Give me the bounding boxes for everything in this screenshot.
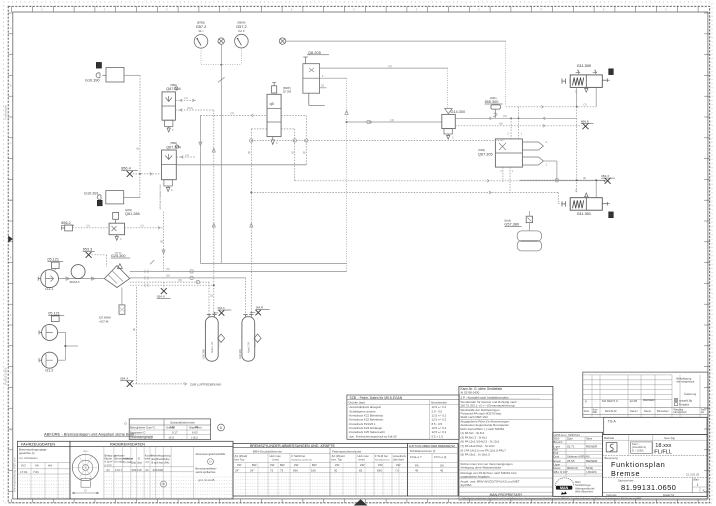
G11.300 bottom ports (576, 87, 578, 106)
svg-text:G1.1: G1.1 (45, 287, 53, 291)
grey line x200.4 (199, 115, 201, 263)
svg-text:(ba): (ba) (132, 461, 137, 465)
svg-text:(4): (4) (390, 118, 393, 122)
svg-text:Lager: Lager (554, 462, 561, 466)
G67.305 top stubs (510, 118, 512, 139)
svg-text:(1): (1) (230, 111, 233, 115)
svg-text:REINER: REINER (586, 445, 598, 449)
pressure gauge G57.2 KL I (194, 35, 208, 49)
svg-text:Funktionsplan: Funktionsplan (5, 104, 8, 120)
valve G11.301 body (570, 198, 602, 211)
valve Q8.205 port 21 wire (320, 67, 448, 69)
wire junction down to G10.391 (139, 174, 141, 198)
svg-text:856.8: 856.8 (581, 120, 589, 124)
test point 054.X dryer (163, 282, 165, 288)
svg-text:Blatt: Blatt (694, 477, 699, 481)
svg-text:F Stößl bei: F Stößl bei (292, 454, 306, 458)
wire 800P right port 115 to riser x306 (281, 114, 306, 116)
wire Q8.205 to G14.300 corner (447, 68, 449, 108)
G10.390 left coupling (96, 73, 100, 78)
G11.301 top ports (595, 181, 597, 198)
pilot circle 79B1 (175, 87, 178, 90)
svg-text:GG: GG (21, 464, 26, 468)
svg-text:ein-ausgebaut: ein-ausgebaut (677, 380, 695, 384)
wire 856.2 to Q61.288 (72, 227, 109, 229)
svg-text:PA: PA (415, 463, 419, 467)
bottom centering triangle (354, 499, 368, 505)
svg-text:45: 45 (440, 469, 444, 473)
svg-text:90102.0(: 90102.0( (567, 466, 578, 470)
tank1 feed corner (208, 282, 210, 317)
svg-text:(A20H): (A20H) (115, 251, 122, 254)
bus 7 wire (506, 106, 597, 108)
svg-text:(8.3): (8.3) (187, 106, 193, 110)
svg-text:24": 24" (250, 469, 254, 473)
svg-text:Freigabe: Freigabe (679, 402, 690, 406)
table BREMSZYLINDER (233, 444, 407, 497)
svg-text:Nennwert C-: Nennwert C- (130, 431, 146, 435)
svg-text:0.17: 0.17 (172, 431, 178, 435)
svg-text:ZW: ZW (270, 463, 275, 467)
svg-text:2(8.75.253.1- (C+---(Gesamtaus: 2(8.75.253.1- (C+---(Gesamtausführung) (461, 404, 515, 408)
svg-text:(8): (8) (166, 274, 169, 278)
svg-text:24": 24" (235, 469, 239, 473)
regeneration slash (150, 260, 154, 264)
tank1 test point 054.X (214, 312, 216, 314)
svg-text:des Rad-Reibe: des Rad-Reibe (151, 457, 170, 461)
svg-text:G14.300: G14.300 (451, 110, 466, 114)
svg-text:dyn: dyn (83, 449, 88, 453)
tank2 test point 054.R (250, 312, 252, 314)
svg-text:KA II: KA II (238, 29, 244, 33)
bus y164.8 solid (176, 164, 306, 166)
svg-text:ZW: ZW (294, 463, 299, 467)
tank2 feed corner (245, 278, 247, 317)
dryer filter triangle (118, 264, 123, 269)
svg-text:BW: BW (252, 463, 257, 467)
svg-text:zul. Achslasten: zul. Achslasten (19, 456, 38, 460)
svg-text:Funktionsplan: Funktionsplan (611, 460, 666, 469)
svg-text:22: 22 (321, 84, 325, 88)
svg-text:q5: q5 (270, 101, 274, 106)
svg-text:Q61.288: Q61.288 (125, 212, 140, 216)
svg-text:410-500: 410-500 (153, 468, 164, 472)
svg-text:D: D (138, 457, 140, 461)
svg-text:(1): (1) (86, 224, 89, 228)
svg-text:Hub(5(mm), a=0.5bar bze: Hub(5(mm), a=0.5bar bze (292, 460, 313, 462)
svg-text:(m (ad): (m (ad) (115, 460, 124, 464)
svg-text:Nennbetrieb: Nennbetrieb (431, 401, 447, 405)
svg-text:kartenzeich: kartenzeich (674, 410, 688, 414)
G14.300 port wire y125.8 dashed (455, 125, 582, 127)
junction x139.9 y173.9 (139, 173, 141, 175)
svg-text:75: 75 (280, 469, 284, 473)
svg-text:Q8.205: Q8.205 (308, 50, 321, 55)
svg-text:Name: Name (554, 466, 561, 470)
svg-text:(1): (1) (185, 153, 188, 157)
svg-text:G1.2: G1.2 (45, 369, 53, 373)
svg-text:(bar (bar): (bar (bar) (393, 458, 404, 462)
svg-text:g=(- Cr cm B: g=(- Cr cm B (199, 478, 215, 482)
svg-text:Lösedruck: Lösedruck (393, 454, 407, 458)
svg-text:Qual: Qual (554, 455, 560, 459)
svg-text:160: 160 (170, 425, 175, 429)
svg-text:KV(a+c ?: KV(a+c ? (410, 455, 422, 459)
svg-text:ZW: ZW (360, 463, 365, 467)
svg-text:Überseilungsnach: Überseilungsnach (130, 435, 154, 439)
svg-text:17.01: 17.01 (20, 470, 28, 474)
svg-text:856.2: 856.2 (61, 221, 71, 225)
svg-text:-95: -95 (194, 425, 199, 429)
wire 800P right port 129 to riser x294 (281, 128, 295, 130)
table FAHRZEUGDATEN (17, 441, 70, 499)
svg-text:Bremse: Bremse (611, 469, 640, 478)
junction gauges (220, 64, 222, 66)
svg-text:bze Typ: bze Typ (235, 458, 245, 462)
G11.300 top arrows (576, 70, 580, 74)
black connector G10.390 (96, 62, 101, 68)
component G10.390 (106, 68, 124, 83)
G10.391 left coupling (97, 195, 101, 200)
MAN logo (555, 478, 574, 486)
compressor G1.1 (41, 270, 59, 288)
svg-text:BREMSZYLINDER-ABMESSUNGEN UND: BREMSZYLINDER-ABMESSUNGEN UND -KRÄFTE (250, 444, 335, 448)
svg-text:© Alle Rechte vorbehalten. Wei: © Alle Rechte vorbehalten. Weitergabe un… (461, 497, 642, 500)
svg-text:172.7: 172.7 (115, 468, 123, 472)
svg-text:Al 52*68 0430: Al 52*68 0430 (461, 391, 480, 395)
svg-text:-dyn. Kreissicherungsdruck ac: -dyn. Kreissicherungsdruck ac Kdt-25 (349, 434, 397, 438)
svg-text:G11.300: G11.300 (577, 64, 591, 68)
wire gauge KL I drop (200, 48, 202, 65)
svg-text:Gefahren MSPL/W(: Gefahren MSPL/W( (567, 455, 590, 459)
riser x251.3 to tank2 (250, 129, 252, 317)
svg-text:054.X: 054.X (601, 174, 609, 178)
air tank G30.390 Kreis 2 (242, 317, 255, 362)
svg-text:O: O (575, 190, 577, 193)
junction x346 y122 (346, 121, 348, 123)
valve Q8.205 port 1 wire (320, 77, 347, 79)
svg-text:+627.46: +627.46 (99, 320, 109, 324)
svg-text:Bemerken: Bemerken (657, 409, 669, 413)
svg-text:B: B (162, 482, 164, 486)
svg-text:856.4: 856.4 (121, 167, 131, 171)
governor circle S1M (71, 265, 85, 279)
svg-text:SA: SA (440, 463, 444, 467)
svg-text:Bereich: Bereich (554, 440, 563, 444)
svg-text:G25.300: G25.300 (111, 254, 126, 258)
svg-text:5.5 + 1.5: 5.5 + 1.5 (432, 434, 444, 438)
bus y180.3 (520, 179, 605, 181)
valve 79B1 port2 wire (175, 109, 213, 111)
wire 854.X to valve 79B2 (133, 173, 162, 175)
compressor G1.2 b (42, 352, 58, 368)
855.300 check valve (493, 109, 498, 118)
svg-text:(1): (1) (303, 151, 306, 154)
svg-text:(6): (6) (166, 267, 169, 271)
frame ruler ticks bottom (11, 499, 13, 503)
svg-text:690: 690 (293, 469, 298, 473)
valve Q67.304 79B1 (162, 92, 175, 120)
circled B mark (161, 481, 167, 487)
svg-text:O: O (575, 91, 577, 94)
svg-text:BW: BW (312, 463, 317, 467)
svg-text:(D: (D (146, 468, 149, 472)
svg-text:Näne: Näne (586, 437, 593, 441)
svg-text:Q7.305: Q7.305 (283, 91, 292, 94)
G1.2b left stub (39, 358, 42, 362)
svg-text:KL I: KL I (199, 29, 204, 33)
valve Q67.305 800P body (267, 94, 281, 136)
svg-text:(6): (6) (499, 122, 502, 126)
wire 800P left port 129 to tank2 riser (251, 128, 267, 130)
svg-text:18.xxx: 18.xxx (655, 443, 671, 449)
svg-text:160: 160 (311, 469, 316, 473)
svg-text:Zglut: Zglut (567, 437, 573, 441)
svg-text:G10.391: G10.391 (84, 192, 99, 196)
check valve atop G14.300 (445, 108, 453, 113)
svg-text:Gew. (kg): Gew. (kg) (664, 436, 675, 440)
svg-text:(800P): (800P) (283, 87, 291, 90)
copyright strip (459, 496, 707, 500)
svg-text:(m (ad): (m (ad) (124, 460, 132, 464)
svg-text:Schaltanvolumen (l): Schaltanvolumen (l) (410, 449, 436, 453)
left centering triangle (8, 236, 13, 243)
circled D mark (218, 424, 225, 431)
wire G10.390 to x140 (124, 74, 140, 76)
svg-text:(1): (1) (291, 151, 294, 154)
slash mark on line x221 (218, 77, 225, 82)
dryer outlet line 24 short (130, 284, 214, 286)
svg-text:Bremsausrüstung 1685 mm: Bremsausrüstung 1685 mm (13, 457, 17, 492)
svg-text:Q67.305: Q67.305 (478, 152, 493, 156)
svg-text:3(B-( 0( 1K?: 3(B-( 0( 1K? (554, 470, 569, 474)
svg-text:Datum: Datum (630, 409, 638, 413)
svg-text:G31.31: G31.31 (219, 340, 221, 347)
component G10.391 (106, 191, 124, 204)
wire y140.4 to G67.305 (251, 139, 503, 141)
svg-text:TG-A: TG-A (608, 420, 617, 424)
svg-text:627.66NH: 627.66NH (99, 316, 111, 320)
svg-text:Kreis 2 FA: Kreis 2 FA (248, 342, 251, 353)
svg-text:REINER: REINER (586, 459, 598, 463)
svg-text:organisieren Angaben: organisieren Angaben (461, 475, 491, 479)
svg-text:1: 1 (697, 483, 699, 487)
svg-text:7.0: 7.0 (395, 469, 399, 473)
svg-text:G: G (10, 372, 12, 374)
valve Q61.288 exhaust (116, 235, 118, 237)
wire vertical x346.6 supply (346, 78, 348, 271)
svg-text:BW: BW (280, 463, 285, 467)
G11.301 right stub (602, 203, 607, 205)
svg-text:(3): (3) (583, 176, 586, 180)
svg-text:RADBREMSDATEN: RADBREMSDATEN (110, 442, 145, 447)
air tank G30.380 Kreis 1 (205, 317, 218, 362)
dryer inlet line from compressor (59, 278, 105, 280)
table LUFTVOLUMEN (407, 444, 458, 497)
table small Schaublosbremse (129, 419, 210, 440)
wire purge to air suspension (133, 383, 187, 385)
svg-text:G10.390: G10.390 (85, 79, 100, 83)
frame ruler ticks top (11, 6, 13, 12)
svg-text:Zäh: Zäh (593, 410, 598, 414)
svg-text:(1): (1) (184, 96, 187, 100)
tank1 nipples (208, 315, 210, 317)
svg-text:(ba): (ba) (137, 461, 142, 465)
bus y192.5 dashed to right (251, 192, 558, 194)
svg-text:ZW: ZW (378, 463, 383, 467)
G11.301 black connector (609, 212, 614, 218)
wire 653.3 to dryer (92, 254, 107, 256)
valve 79B2 port1 stub (176, 156, 196, 158)
svg-text:05.121: 05.121 (48, 311, 60, 315)
G14.300 port wire y118.3 (455, 117, 576, 119)
svg-text:Q67.304: Q67.304 (166, 87, 181, 91)
wire drop x505.7 (505, 41, 507, 104)
frame ruler ticks right (704, 12, 710, 14)
svg-text:653.3: 653.3 (83, 248, 93, 252)
svg-text:(9) PA 16x2 : St: (9) PA 16x2 : St 16x1.5 (461, 453, 491, 457)
svg-text:(8): (8) (178, 278, 181, 282)
svg-text:(1): (1) (137, 147, 140, 150)
svg-text:wirksam: wirksam (124, 457, 134, 461)
valve Q8.205 port 22 stub (320, 87, 327, 89)
svg-text:S1Mx3.5: S1Mx3.5 (70, 281, 80, 284)
svg-text:ZW: ZW (396, 463, 401, 467)
svg-text:LUFTVOLUMEN DER BREMSE(SZ: LUFTVOLUMEN DER BREMSE(SZ (409, 444, 455, 448)
solenoid pilot of valve 800P (272, 86, 277, 93)
svg-text:054.X: 054.X (218, 306, 225, 310)
svg-text:Bericht-Nr: Bericht-Nr (605, 409, 617, 413)
svg-text:ausgefü.Bg: ausgefü.Bg (679, 399, 693, 403)
G67.305 right port arrow 2 (522, 142, 543, 150)
test coupling circle 2 (279, 38, 285, 44)
G67.305 right port arrow 1 (522, 157, 543, 165)
svg-text:-(5.5: -(5.5 (168, 435, 174, 439)
svg-text:054.R: 054.R (256, 306, 263, 310)
blatt box (691, 478, 693, 493)
svg-text:25.95: 25.95 (567, 459, 575, 463)
svg-text:6.63: 6.63 (192, 431, 198, 435)
air dryer G25.300 body (104, 266, 129, 288)
svg-text:690: 690 (377, 469, 382, 473)
svg-text:KV b+c (l): KV b+c (l) (434, 455, 446, 459)
massstab symbol (606, 443, 617, 452)
test coupling circle 1 (218, 38, 224, 44)
wire G67.305 out to bus180 (543, 160, 557, 162)
compressor G1.2 a (42, 324, 58, 340)
svg-text:(6): (6) (133, 328, 136, 331)
valve G67.305 body (495, 139, 522, 167)
svg-text:Schaublösbremse: Schaublösbremse (170, 420, 195, 424)
valve 79B2 exhaust (164, 180, 172, 186)
svg-text:115: 115 (137, 468, 142, 472)
svg-text:Änderung: Änderung (684, 392, 697, 396)
dryer outlet line 21 (130, 270, 347, 272)
svg-text:Abmessungsarbeitshilfe: Abmessungsarbeitshilfe (196, 452, 226, 456)
frame ruler ticks left (8, 12, 13, 14)
table RADBREMSDATEN (70, 441, 233, 499)
svg-text:054.X: 054.X (120, 377, 128, 381)
G11.300 left port (562, 79, 570, 84)
vertical line weitere verbraucher (163, 212, 165, 272)
svg-text:dgl KBA: dgl KBA (461, 483, 472, 487)
solenoid Q61.288 (113, 212, 119, 219)
valve 800P exhaust (272, 137, 274, 140)
G14.300 exhaust (444, 129, 452, 134)
svg-text:05.121: 05.121 (47, 258, 59, 262)
svg-text:(mm): (mm) (359, 458, 366, 462)
svg-text:81.99131.0650: 81.99131.0650 (621, 483, 676, 492)
wheel drawing (72, 454, 98, 480)
title block main box (603, 435, 707, 497)
svg-text:3500: 3500 (554, 437, 560, 441)
svg-text:B ach-bau (NK): B ach-bau (NK) (152, 461, 170, 465)
revision table (583, 372, 708, 417)
svg-text:REINER: REINER (643, 398, 655, 402)
svg-text:Zust: Zust (584, 409, 589, 413)
svg-text:MAN: MAN (560, 486, 569, 490)
svg-text:(1): (1) (248, 151, 251, 154)
svg-text:5234(: 5234( (586, 466, 593, 470)
G11.300 spring (573, 78, 584, 86)
G11.301 left port (562, 201, 570, 206)
valve 79B1 port1 symbols (175, 99, 196, 101)
G1.2a left stub (39, 330, 42, 334)
svg-text:G30.390: G30.390 (238, 348, 242, 359)
svg-text:ZW: ZW (335, 463, 340, 467)
svg-text:81.99131.0650: 81.99131.0650 (4, 367, 8, 385)
svg-text:855.300: 855.300 (485, 100, 499, 104)
wire 856.8 down (576, 107, 578, 193)
G1.1 left stub (38, 277, 41, 281)
svg-text:Maßstab: Maßstab (604, 436, 615, 440)
tank2 nipples (245, 315, 247, 317)
kern box (631, 442, 653, 453)
riser x294.7 (294, 129, 296, 181)
svg-text:Hub 2(3(mm) max: Hub 2(3(mm) max (375, 460, 390, 462)
valve 79B1 exhaust (165, 120, 173, 126)
svg-text:G57.380: G57.380 (504, 223, 519, 227)
svg-text:ZW: ZW (237, 463, 242, 467)
wire x213.8 tank1 lower (213, 285, 215, 317)
grey corner y263.4 (200, 262, 221, 264)
svg-text:(5): (5) (160, 240, 163, 243)
svg-text:(mm): (mm) (273, 458, 280, 462)
svg-text:ZUR LUFTFEDERUNG: ZUR LUFTFEDERUNG (190, 382, 222, 386)
wire gauge KA II drop (240, 48, 242, 65)
dryer outlet line 22 (130, 277, 246, 279)
svg-text:7.01: 7.01 (33, 470, 39, 474)
svg-text:VA: VA (35, 464, 39, 468)
G11.300 black connector (609, 69, 614, 75)
svg-text:Werk (Mannheim: Werk (Mannheim (575, 491, 593, 494)
riser x213.8 to tank1 (213, 110, 215, 285)
notes box SZB Feder Daten (347, 395, 459, 439)
svg-text:054.X: 054.X (157, 295, 165, 299)
valve Q61.288 body (109, 223, 124, 235)
svg-text:e (cm²: e (cm² (105, 463, 112, 467)
G67.305 bottom stubs (502, 167, 504, 182)
wire 800P left port 115 to tank1 riser (214, 114, 267, 116)
svg-text:G11.301: G11.301 (577, 212, 591, 216)
svg-text:setzungsflaches: setzungsflaches (196, 470, 217, 474)
wire dryer to silencer (121, 288, 123, 305)
svg-text:bze. Typ: bze. Typ (332, 458, 343, 462)
pilot circle 79B2 (175, 145, 178, 148)
svg-text:Federspeicherzylinder: Federspeicherzylinder (332, 449, 362, 453)
G11.301 spring (573, 200, 584, 208)
svg-text:(-(9.2: (-(9.2 (191, 435, 198, 439)
